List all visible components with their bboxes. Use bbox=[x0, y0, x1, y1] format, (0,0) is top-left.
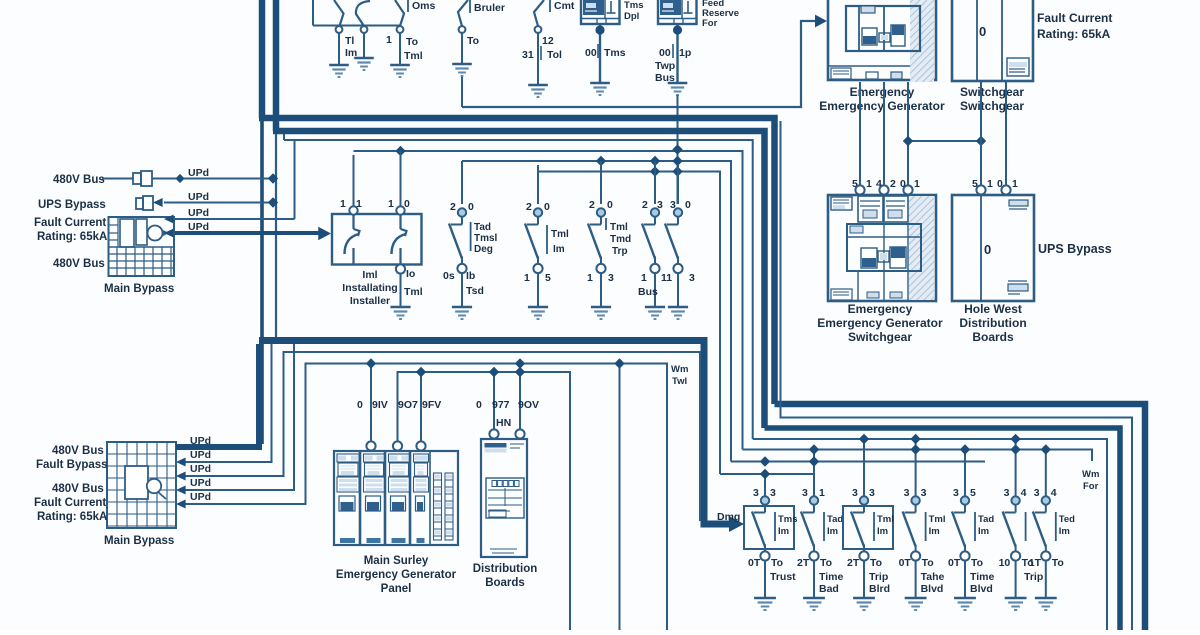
svg-text:Iml: Iml bbox=[362, 269, 377, 281]
svg-text:0: 0 bbox=[984, 242, 991, 257]
breaker B4 bbox=[588, 165, 611, 319]
arrow into isolator bbox=[318, 227, 331, 241]
svg-text:10: 10 bbox=[999, 557, 1011, 569]
svg-text:Blrd: Blrd bbox=[869, 583, 890, 595]
label S4 bbox=[467, 0, 505, 47]
svg-text:11: 11 bbox=[661, 272, 672, 284]
svg-text:Switchgear: Switchgear bbox=[960, 99, 1024, 113]
svg-text:Installer: Installer bbox=[350, 295, 390, 307]
svg-text:Im: Im bbox=[1059, 526, 1070, 537]
svg-text:Blvd: Blvd bbox=[970, 583, 993, 595]
label upd b5 bbox=[190, 491, 211, 503]
label 480V bus 4 bbox=[52, 483, 104, 495]
svg-text:Tol: Tol bbox=[547, 49, 562, 61]
wire box line3 bbox=[176, 352, 700, 521]
UPS main bypass unit 2 bbox=[107, 442, 176, 528]
bus H2 thick bbox=[273, 131, 765, 428]
svg-text:Tsd: Tsd bbox=[466, 285, 484, 297]
svg-text:Tad: Tad bbox=[474, 222, 491, 233]
breaker B2 bbox=[449, 165, 472, 319]
cabinet emergency generator switchgear bbox=[828, 195, 936, 301]
wire BR line G bbox=[720, 473, 814, 475]
label isolator bottom bbox=[404, 268, 423, 298]
svg-text:Emergency Generator: Emergency Generator bbox=[336, 569, 457, 581]
svg-text:9IV: 9IV bbox=[372, 399, 388, 411]
connector plug 2 bbox=[136, 196, 153, 210]
svg-text:Trp: Trp bbox=[612, 246, 628, 257]
svg-text:Tml: Tml bbox=[551, 229, 569, 240]
svg-text:3: 3 bbox=[869, 487, 875, 499]
svg-text:3: 3 bbox=[921, 487, 927, 499]
wire box line2 bbox=[176, 344, 272, 467]
svg-text:00: 00 bbox=[659, 47, 671, 59]
wire drop 421 bbox=[416, 367, 426, 441]
svg-text:0: 0 bbox=[607, 199, 613, 211]
relay unit K1 bbox=[581, 0, 620, 24]
svg-text:Bus: Bus bbox=[638, 286, 658, 298]
label panel name bbox=[336, 555, 457, 595]
pin dist a bbox=[489, 429, 498, 438]
label B5 B6 top bbox=[642, 199, 691, 211]
svg-text:Twl: Twl bbox=[672, 376, 687, 387]
pin isolator bottom bbox=[396, 264, 405, 273]
label wm twl bbox=[671, 364, 688, 387]
wire top-left riser bbox=[312, 0, 314, 26]
label ups bypass right bbox=[1038, 242, 1112, 256]
breaker C5 bbox=[948, 444, 994, 610]
wire BR line F bbox=[731, 461, 985, 463]
svg-text:1: 1 bbox=[914, 178, 920, 190]
label B3 top bbox=[526, 201, 550, 213]
label upd b4 bbox=[190, 477, 211, 489]
svg-text:UPd: UPd bbox=[188, 221, 209, 233]
svg-text:Deg: Deg bbox=[474, 244, 493, 255]
svg-text:2: 2 bbox=[450, 201, 456, 213]
UPS main bypass unit bbox=[109, 217, 175, 276]
label K1 bbox=[624, 0, 644, 22]
svg-text:0: 0 bbox=[468, 201, 474, 213]
wire cab1 drop a bbox=[859, 82, 861, 185]
svg-text:Oms: Oms bbox=[412, 0, 436, 12]
svg-text:Im: Im bbox=[778, 526, 789, 537]
svg-text:12: 12 bbox=[542, 35, 554, 47]
cabinet hole west distribution bbox=[952, 195, 1034, 301]
svg-text:Tml: Tml bbox=[404, 50, 423, 62]
bus H1 thick bbox=[259, 118, 775, 404]
svg-text:3: 3 bbox=[689, 272, 695, 284]
svg-text:Fault Current: Fault Current bbox=[34, 497, 106, 509]
wire box line4 bbox=[176, 344, 294, 495]
label 480V bus 2 bbox=[53, 258, 105, 270]
svg-text:Cmt: Cmt bbox=[554, 0, 575, 12]
svg-text:480V Bus: 480V Bus bbox=[52, 483, 104, 495]
svg-text:UPS Bypass: UPS Bypass bbox=[38, 199, 106, 211]
label C6 trip bbox=[1024, 571, 1043, 583]
svg-text:1: 1 bbox=[866, 178, 872, 190]
wire cab link bbox=[903, 136, 986, 146]
svg-text:Tl: Tl bbox=[345, 35, 354, 47]
svg-text:For: For bbox=[1083, 481, 1099, 492]
svg-text:UPd: UPd bbox=[190, 491, 211, 503]
svg-text:Switchgear: Switchgear bbox=[848, 330, 912, 344]
svg-text:To: To bbox=[406, 36, 418, 48]
svg-text:HN: HN bbox=[496, 417, 511, 429]
svg-text:Tml: Tml bbox=[404, 286, 423, 298]
bus V1 continuation bbox=[260, 121, 264, 444]
svg-text:Tmd: Tmd bbox=[610, 234, 631, 245]
breaker C7 bbox=[1029, 444, 1075, 610]
svg-text:UPd: UPd bbox=[190, 463, 211, 475]
wire BR line B bbox=[781, 121, 1133, 630]
bus V2 thick bbox=[273, 0, 280, 131]
svg-text:3: 3 bbox=[608, 272, 614, 284]
disconnect switch S2 bbox=[356, 1, 370, 57]
svg-text:To: To bbox=[467, 35, 479, 47]
svg-text:Main Surley: Main Surley bbox=[364, 555, 429, 567]
wire cab1 drop b bbox=[883, 82, 885, 185]
svg-text:0s: 0s bbox=[443, 270, 455, 282]
label rating 2 bbox=[37, 511, 107, 523]
label dist volts bbox=[476, 399, 539, 429]
svg-text:Io: Io bbox=[406, 268, 415, 280]
svg-text:Main Bypass: Main Bypass bbox=[104, 535, 174, 547]
label K1 pins bbox=[585, 44, 626, 59]
isolator box bbox=[332, 151, 422, 265]
svg-text:Tmsl: Tmsl bbox=[474, 233, 498, 244]
svg-text:1: 1 bbox=[388, 198, 394, 210]
wire B2 feed bbox=[461, 161, 463, 204]
distribution boards cabinet bbox=[481, 439, 527, 557]
pin cab4 b bbox=[1001, 185, 1010, 194]
svg-text:0: 0 bbox=[979, 24, 986, 39]
label upd 3 bbox=[188, 207, 209, 219]
svg-text:Rating: 65kA: Rating: 65kA bbox=[37, 231, 107, 243]
wire stub V3 bbox=[283, 134, 285, 140]
bus V1 thick bbox=[259, 0, 266, 118]
breaker C3 bbox=[843, 434, 894, 610]
svg-text:0T: 0T bbox=[899, 557, 912, 569]
connector plug 1 bbox=[133, 171, 152, 186]
disconnect switch S1 bbox=[334, 0, 344, 64]
wire V2 continuation bbox=[275, 134, 277, 338]
svg-text:Im: Im bbox=[978, 526, 989, 537]
svg-text:3: 3 bbox=[770, 487, 776, 499]
svg-text:480V Bus: 480V Bus bbox=[53, 174, 105, 186]
label 480V bus 3 bbox=[52, 445, 104, 457]
dot line4 node bbox=[672, 144, 682, 154]
svg-text:UPd: UPd bbox=[190, 435, 211, 447]
wire BR line E bbox=[743, 450, 1093, 462]
svg-text:3: 3 bbox=[753, 487, 759, 499]
ground S2 bbox=[354, 58, 374, 70]
pin panel a bbox=[366, 441, 375, 450]
svg-text:977: 977 bbox=[492, 399, 510, 411]
label isolator pins bbox=[340, 198, 410, 210]
svg-text:To: To bbox=[820, 557, 832, 569]
breaker B5 bbox=[642, 165, 665, 319]
svg-text:To: To bbox=[1052, 557, 1064, 569]
label B2 bottom bbox=[443, 270, 484, 297]
svg-text:1: 1 bbox=[356, 198, 362, 210]
svg-text:2: 2 bbox=[642, 199, 648, 211]
ground isolator bbox=[390, 307, 410, 319]
label main bypass 1 bbox=[104, 283, 174, 295]
arrow dmg bbox=[729, 516, 744, 532]
wire sw drop b bbox=[1005, 82, 1007, 185]
wire line5 bbox=[462, 161, 731, 462]
wire line372 bbox=[398, 372, 571, 630]
svg-text:0: 0 bbox=[357, 399, 363, 411]
wire S4 to corner bbox=[461, 77, 463, 107]
label dist name bbox=[473, 563, 538, 589]
wire upd line1 bbox=[102, 173, 278, 183]
label isolator name bbox=[342, 269, 397, 307]
label S3 bbox=[386, 34, 423, 62]
label S1 bbox=[345, 35, 357, 59]
svg-text:Installating: Installating bbox=[342, 282, 397, 294]
svg-text:3: 3 bbox=[953, 487, 959, 499]
svg-text:To: To bbox=[771, 557, 783, 569]
svg-text:Tms: Tms bbox=[604, 47, 626, 59]
label B4 top bbox=[589, 199, 613, 211]
svg-text:9OV: 9OV bbox=[518, 399, 539, 411]
cabinet switchgear top bbox=[952, 0, 1033, 81]
label S5 bbox=[522, 0, 575, 61]
wire B3 feed bbox=[537, 172, 539, 205]
svg-text:0T: 0T bbox=[948, 557, 961, 569]
label B2 top bbox=[450, 201, 474, 213]
svg-text:4: 4 bbox=[1021, 487, 1027, 499]
svg-text:1: 1 bbox=[819, 487, 825, 499]
svg-text:Trust: Trust bbox=[770, 571, 796, 583]
breaker C4 bbox=[899, 434, 946, 610]
wire line3 bbox=[284, 140, 753, 439]
svg-text:1: 1 bbox=[524, 272, 530, 284]
label wm for bbox=[1082, 469, 1099, 492]
svg-text:2T: 2T bbox=[847, 557, 860, 569]
label B2 bracket bbox=[471, 222, 498, 255]
wire B5 feed bbox=[654, 161, 656, 204]
wire drop 619 bbox=[614, 358, 624, 630]
svg-text:Tml: Tml bbox=[610, 222, 628, 233]
svg-text:9FV: 9FV bbox=[422, 399, 441, 411]
svg-text:1: 1 bbox=[587, 272, 593, 284]
svg-text:Trip: Trip bbox=[869, 571, 888, 583]
svg-text:2: 2 bbox=[890, 178, 896, 190]
svg-text:Panel: Panel bbox=[381, 583, 412, 595]
dot line5 c bbox=[672, 156, 682, 166]
svg-text:For: For bbox=[702, 18, 718, 29]
label fault current rating top bbox=[1037, 11, 1112, 41]
svg-text:UPd: UPd bbox=[188, 167, 209, 179]
label dmg bbox=[717, 511, 740, 523]
pin panel b bbox=[393, 441, 402, 450]
svg-text:1: 1 bbox=[340, 198, 346, 210]
svg-text:Blvd: Blvd bbox=[921, 583, 944, 595]
svg-text:2: 2 bbox=[589, 199, 595, 211]
bus H3 thick bbox=[259, 341, 734, 525]
svg-text:0: 0 bbox=[404, 198, 410, 210]
wire drop 494 bbox=[489, 367, 499, 430]
dot line6 a bbox=[650, 166, 660, 176]
bus BR thick C bbox=[765, 428, 1121, 630]
svg-text:0: 0 bbox=[685, 199, 691, 211]
svg-text:Dmg: Dmg bbox=[717, 511, 740, 523]
svg-text:3: 3 bbox=[904, 487, 910, 499]
svg-text:Main Bypass: Main Bypass bbox=[104, 283, 174, 295]
label upd 4 bbox=[188, 221, 209, 233]
svg-text:1T: 1T bbox=[1029, 557, 1042, 569]
svg-text:Time: Time bbox=[970, 571, 994, 583]
svg-text:3: 3 bbox=[1034, 487, 1040, 499]
svg-text:Rating: 65kA: Rating: 65kA bbox=[37, 511, 107, 523]
svg-text:3: 3 bbox=[657, 199, 663, 211]
ground K2 bbox=[668, 83, 688, 95]
pin cab4 a bbox=[976, 185, 985, 194]
pin panel c bbox=[416, 441, 425, 450]
arrow into generator cabinet bbox=[815, 15, 827, 28]
pin cab3 b bbox=[879, 185, 888, 194]
svg-text:Fault Current: Fault Current bbox=[34, 217, 106, 229]
svg-text:0T: 0T bbox=[748, 557, 761, 569]
svg-text:9O7: 9O7 bbox=[398, 399, 418, 411]
ground S3 bbox=[390, 65, 410, 77]
svg-text:Im: Im bbox=[827, 526, 838, 537]
svg-text:Tms: Tms bbox=[778, 514, 798, 525]
wire K2 drop bbox=[673, 24, 682, 82]
wire box line5 bbox=[176, 364, 667, 631]
label B5 B6 bottom bbox=[638, 272, 695, 298]
disconnect switch S5 bbox=[534, 0, 544, 84]
svg-text:2T: 2T bbox=[797, 557, 810, 569]
label cab4 pin numbers bbox=[972, 178, 1018, 190]
svg-text:1: 1 bbox=[641, 272, 647, 284]
svg-text:5: 5 bbox=[545, 272, 551, 284]
relay unit K2 bbox=[658, 0, 697, 24]
svg-text:Fault Current: Fault Current bbox=[1037, 11, 1112, 25]
wire cab1 drop c bbox=[907, 82, 909, 185]
disconnect switch S4 bbox=[458, 0, 468, 63]
svg-text:Rating: 65kA: Rating: 65kA bbox=[1037, 27, 1111, 41]
label 480V bus 1 bbox=[53, 174, 105, 186]
pin dist b bbox=[515, 429, 524, 438]
svg-text:Emergency: Emergency bbox=[848, 302, 913, 316]
svg-text:To: To bbox=[971, 557, 983, 569]
svg-text:Bruler: Bruler bbox=[474, 2, 505, 14]
svg-text:Fault Bypass: Fault Bypass bbox=[36, 459, 108, 471]
label B3 bracket bbox=[547, 225, 569, 255]
svg-text:0: 0 bbox=[544, 201, 550, 213]
svg-text:Im: Im bbox=[553, 244, 565, 255]
svg-text:00: 00 bbox=[585, 47, 597, 59]
svg-text:Im: Im bbox=[929, 526, 940, 537]
svg-text:UPd: UPd bbox=[190, 449, 211, 461]
label upd b2 bbox=[190, 449, 211, 461]
svg-text:Tad: Tad bbox=[978, 514, 994, 525]
label fault bypass bbox=[36, 459, 108, 471]
svg-text:2: 2 bbox=[526, 201, 532, 213]
wire upd line2 bbox=[153, 197, 278, 207]
ground S4 bbox=[452, 64, 472, 76]
svg-text:Ib: Ib bbox=[466, 270, 475, 282]
svg-text:Boards: Boards bbox=[972, 330, 1014, 344]
wire node K2 down bbox=[677, 95, 679, 204]
label cabinet1 bbox=[819, 85, 945, 113]
label rating 1 bbox=[37, 231, 107, 243]
svg-text:To: To bbox=[922, 557, 934, 569]
dot line5 b bbox=[650, 156, 660, 166]
svg-text:1p: 1p bbox=[679, 47, 691, 59]
svg-text:5: 5 bbox=[970, 487, 976, 499]
svg-text:1: 1 bbox=[987, 178, 993, 190]
label B4 bracket bbox=[606, 218, 631, 257]
label upd 1 bbox=[188, 167, 209, 179]
disconnect switch S3 bbox=[395, 0, 404, 64]
svg-text:480V Bus: 480V Bus bbox=[52, 445, 104, 457]
svg-text:0: 0 bbox=[476, 399, 482, 411]
wire BR line D bbox=[753, 439, 1107, 630]
svg-text:Boards: Boards bbox=[485, 577, 525, 589]
ground S1 bbox=[329, 65, 349, 77]
bus upd line4 thick bbox=[164, 229, 322, 238]
breaker C2 bbox=[797, 444, 843, 610]
label fault current 2 bbox=[34, 497, 106, 509]
pin cab3 c bbox=[903, 185, 912, 194]
svg-text:Tahe: Tahe bbox=[921, 571, 945, 583]
wire line6 bbox=[538, 172, 720, 475]
svg-text:Dpl: Dpl bbox=[624, 11, 639, 22]
label B4 bottom bbox=[587, 272, 614, 284]
wire drop 371 bbox=[366, 358, 376, 441]
svg-text:Time: Time bbox=[819, 571, 843, 583]
wire line4 bbox=[354, 151, 743, 450]
dot line5 a bbox=[596, 156, 606, 166]
svg-text:Im: Im bbox=[877, 526, 888, 537]
svg-text:Ted: Ted bbox=[1059, 514, 1075, 525]
pin cab3 a bbox=[855, 185, 864, 194]
svg-text:Twp: Twp bbox=[655, 60, 675, 72]
svg-text:3: 3 bbox=[670, 199, 676, 211]
label upd b1 bbox=[190, 435, 211, 447]
svg-text:Distribution: Distribution bbox=[959, 316, 1026, 330]
svg-text:To: To bbox=[870, 557, 882, 569]
wire upd line3 bbox=[164, 215, 295, 224]
label cabinet2 bbox=[960, 85, 1024, 113]
ground S5 bbox=[528, 85, 548, 97]
svg-text:Switchgear: Switchgear bbox=[960, 85, 1024, 99]
bus BR thick A bbox=[775, 404, 1146, 630]
svg-text:Distribution: Distribution bbox=[473, 563, 538, 575]
label Oms bbox=[408, 0, 436, 12]
label upd 2 bbox=[188, 191, 209, 203]
label K2 pins bbox=[655, 44, 691, 84]
label upd b3 bbox=[190, 463, 211, 475]
breaker C1 bbox=[744, 456, 798, 610]
wire drop 520 bbox=[515, 358, 525, 430]
wire upd riser3 bbox=[294, 140, 296, 219]
svg-text:UPd: UPd bbox=[190, 477, 211, 489]
svg-text:31: 31 bbox=[522, 49, 534, 61]
svg-text:480V Bus: 480V Bus bbox=[53, 258, 105, 270]
main emergency generator panel bbox=[334, 451, 458, 545]
wire top-left bus bbox=[313, 25, 401, 27]
wire feeder y107 bbox=[462, 21, 818, 107]
ground K1 bbox=[590, 83, 610, 95]
cabinet emergency generator top bbox=[828, 0, 936, 82]
label panel volts bbox=[357, 399, 441, 411]
label ups bypass bbox=[38, 199, 106, 211]
label cabinet4 bbox=[959, 302, 1026, 344]
